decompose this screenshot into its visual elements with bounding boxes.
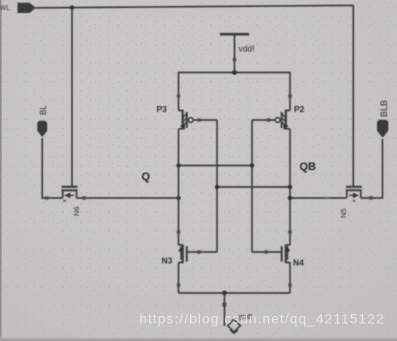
- port WL: [18, 3, 36, 13]
- wire N4 source: [289, 263, 291, 294]
- marker on P3 source wire: [177, 94, 180, 97]
- wire N3 source: [178, 263, 180, 294]
- junction QB cross left: [215, 185, 219, 189]
- transistor N4: [282, 245, 290, 263]
- marker on N4 gate wire: [264, 250, 267, 253]
- wire P2 gate: [252, 119, 275, 121]
- svg-text:Q: Q: [142, 171, 151, 183]
- wire node QB to right access: [290, 197, 346, 199]
- instance mark right access: [353, 200, 356, 202]
- junction Q cross left: [176, 163, 180, 167]
- junction WL tap: [70, 5, 74, 9]
- svg-text:N4: N4: [293, 258, 304, 268]
- wire node QB column: [289, 129, 291, 245]
- svg-text:vdd!: vdd!: [239, 44, 255, 54]
- svg-text:P3: P3: [157, 104, 168, 114]
- wire node Q to left access: [77, 197, 179, 199]
- junction gnd tap: [222, 291, 227, 296]
- marker on P3 gate wire: [197, 118, 200, 121]
- svg-text:https://blog.csdn.net/qq_42115: https://blog.csdn.net/qq_42115122: [139, 312, 384, 327]
- power vdd!: [220, 34, 249, 72]
- junction QB cross right: [288, 185, 292, 189]
- transistor N5 right access: [346, 187, 362, 198]
- wire QB cross-couple to left gates: [217, 186, 290, 188]
- wire WL left drop: [71, 8, 73, 187]
- marker on P2 gate wire: [267, 118, 270, 121]
- wire right gate column: [251, 120, 253, 252]
- transistor P3: [179, 111, 194, 130]
- marker on Q access wire: [82, 196, 85, 199]
- ground gnd!: [222, 293, 240, 333]
- junction QB access: [288, 196, 292, 200]
- svg-text:P2: P2: [294, 104, 305, 114]
- instance mark left access: [63, 200, 66, 202]
- marker on N3 gate wire: [197, 250, 200, 253]
- svg-text:N3: N3: [162, 256, 173, 266]
- wire left gate column: [216, 120, 218, 252]
- marker on N4 drain wire: [288, 230, 291, 233]
- wire N3 gate: [187, 251, 217, 253]
- wire Q cross-couple to right gates: [179, 165, 253, 167]
- junction Q access: [176, 196, 180, 200]
- wire vdd rail: [179, 73, 291, 111]
- marker on BLB wire: [369, 196, 372, 199]
- marker on BL wire: [45, 196, 48, 199]
- wire P3 gate: [193, 119, 217, 121]
- transistor N3: [178, 245, 186, 263]
- port BL: [37, 121, 47, 137]
- junction Q cross right: [250, 163, 254, 167]
- marker on N4 source wire: [288, 283, 291, 286]
- port BLB: [377, 120, 388, 138]
- wire right access to BLB: [361, 139, 383, 198]
- wire WL horizontal: [36, 5, 354, 8]
- wire BL to access transistor: [42, 138, 63, 198]
- transistor N6 left access: [62, 187, 78, 198]
- svg-text:N6: N6: [72, 206, 81, 216]
- wire ground rail: [179, 292, 291, 294]
- svg-text:BL: BL: [39, 105, 48, 115]
- marker on N3 source wire: [177, 283, 180, 286]
- marker on P2 source wire: [288, 94, 291, 97]
- svg-text:QB: QB: [300, 161, 317, 173]
- svg-text:BLB: BLB: [379, 100, 389, 117]
- junction vdd rail: [232, 70, 237, 75]
- wire WL right drop: [352, 5, 354, 187]
- wire node Q column: [178, 129, 180, 245]
- transistor P2: [275, 111, 290, 130]
- svg-text:WL: WL: [0, 5, 10, 12]
- marker on N3 drain wire: [177, 230, 180, 233]
- tick on QB access wire: [326, 197, 328, 199]
- wire N4 gate: [252, 251, 282, 253]
- svg-text:N5: N5: [339, 208, 348, 218]
